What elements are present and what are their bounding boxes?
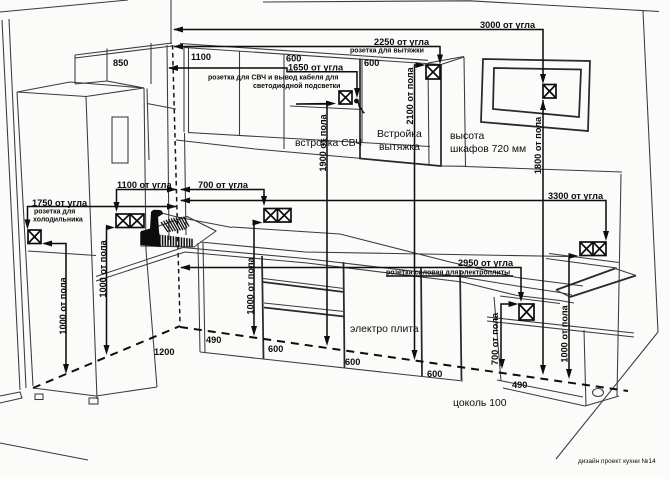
countertop: backsplash top line <box>232 227 583 286</box>
dim 1000 right-double down arrow <box>566 369 572 379</box>
svg-text:шкафов 720 мм: шкафов 720 мм <box>450 143 526 155</box>
svg-text:700 от угла: 700 от угла <box>198 180 249 190</box>
dim 1000 fridge-double line <box>107 228 113 353</box>
svg-text:490: 490 <box>206 335 221 345</box>
dim 2950 left arrow at corner <box>180 265 190 271</box>
svg-text:Встройка: Встройка <box>377 129 422 140</box>
svg-text:2100 от пола: 2100 от пола <box>405 66 415 124</box>
right wall counter back lines <box>546 259 617 269</box>
cabinet 850: left edge <box>74 55 76 84</box>
hood cabinet: front face outline <box>360 59 441 167</box>
fridge: front-left vertical edge <box>17 92 33 386</box>
fridge: door split line <box>28 251 96 256</box>
hood cabinet: side bottom edge <box>441 165 466 167</box>
window: outer frame <box>481 59 590 131</box>
base run: drawer line 1 thick <box>263 282 344 292</box>
dim 1000 corner-double line <box>254 223 260 334</box>
svg-text:розетка для СВЧ и вывод кабеля: розетка для СВЧ и вывод кабеля для <box>208 74 338 82</box>
dim 2100 right arrow into socket <box>416 62 426 68</box>
dim 2250 left arrow <box>173 44 183 50</box>
socket: microwave <box>339 91 352 104</box>
dim 2250 down arrow <box>437 55 443 65</box>
socket: stove power <box>519 304 534 320</box>
dim 1800 от пола line: up arrow under window socket <box>540 100 546 110</box>
dim 1000 corner-double right arrow <box>253 220 263 226</box>
svg-text:600: 600 <box>268 344 283 354</box>
dim 1000 fridge-double down arrow <box>104 345 110 355</box>
wall: right wall outer edge <box>643 11 658 332</box>
right cabinet: left front vertical <box>494 297 501 381</box>
base run: divider drawers right / stove left <box>344 262 345 368</box>
base run: bottom plinth line <box>200 352 463 381</box>
upper cabinets: divider 1100 door split <box>239 51 241 136</box>
fridge: front-right vertical edge <box>86 97 97 400</box>
svg-text:цоколь 100: цоколь 100 <box>453 398 507 409</box>
right cabinet: division line 2 <box>487 321 634 337</box>
dim 3000 down arrow at window socket <box>540 74 546 84</box>
base run: drawer line 1 thin <box>263 279 344 289</box>
svg-text:встройка СВЧ: встройка СВЧ <box>295 138 362 149</box>
dim 700 down arrow into socket <box>261 196 267 206</box>
dim 1900 от пола line <box>296 104 333 344</box>
upper cabinets: divider at microwave niche right <box>361 59 363 143</box>
dim 3000 line <box>174 30 543 82</box>
dim 700 от угла line <box>181 190 264 204</box>
dim 2950 от угла line <box>181 268 521 300</box>
wall: right wall floor edge <box>556 332 658 459</box>
dim 1800 down arrow at floor <box>540 365 546 375</box>
dim 2250 line <box>174 47 440 62</box>
svg-text:1000 от пола: 1000 от пола <box>98 239 108 297</box>
svg-text:1750 от угла: 1750 от угла <box>32 198 88 208</box>
right cabinet: adjustable foot <box>593 389 604 397</box>
cabinet 850: bottom edge right part <box>107 81 144 88</box>
svg-text:1800 от пола: 1800 от пола <box>533 116 543 174</box>
wall: back-right corner vertical <box>617 174 621 396</box>
fridge: foot 2 <box>89 398 98 404</box>
svg-text:светодиодной подсветки: светодиодной подсветки <box>253 82 340 90</box>
countertop: back edge along wall <box>200 242 568 257</box>
sink: faucet head <box>156 210 163 217</box>
fridge: side vent rectangle <box>112 117 128 163</box>
svg-text:3300 от угла: 3300 от угла <box>548 191 604 201</box>
dim 1000 fridge left arrow <box>42 241 52 247</box>
base run: corner cabinet left edge double <box>198 243 200 352</box>
dim 700 stove right arrow <box>509 301 519 307</box>
dim 700 stove down arrow <box>499 359 505 369</box>
dim 1100 down arrow into socket <box>114 202 120 212</box>
dim 3300 от угла line <box>181 201 606 239</box>
hood cabinet: side top edge <box>441 57 464 65</box>
base run: divider right end <box>460 270 462 380</box>
svg-text:высота: высота <box>450 131 484 142</box>
sink: back wall edge through corner <box>158 212 232 228</box>
base run: divider drawers left <box>262 256 264 359</box>
dim 1100 right arrow at corner <box>167 187 177 193</box>
svg-text:490: 490 <box>512 380 527 390</box>
right return: left end edge <box>556 290 570 297</box>
svg-text:1650 от угла: 1650 от угла <box>288 63 344 73</box>
dim 1900 down arrow at floor <box>324 336 330 346</box>
wall: back wall ceiling edge <box>263 1 659 12</box>
fridge: top face outline <box>17 82 144 97</box>
underline for розетка силовая <box>386 275 513 277</box>
dim 1750 right arrow at corner <box>167 204 177 210</box>
dim 1000 corner-double down arrow <box>251 326 257 336</box>
dim 1750 down arrow into socket <box>25 220 31 230</box>
fridge: side-right vertical edge <box>144 88 157 387</box>
cabinet 850: top back edge <box>75 43 172 55</box>
cabinet bottom reference line 720mm <box>176 140 362 159</box>
cabinet 850: door divider 2 <box>150 43 152 84</box>
right cabinet: bottom front edge <box>497 380 583 397</box>
right return: right end edge <box>615 269 636 276</box>
svg-text:1000 от пола: 1000 от пола <box>560 304 570 362</box>
svg-text:холодильника: холодильника <box>33 217 83 224</box>
wall panel vertical below upper cabinets <box>185 133 187 235</box>
dim 3300 left arrow at corner <box>180 198 190 204</box>
wall: left skirting <box>0 392 22 403</box>
base run: divider stove right <box>421 267 422 376</box>
svg-text:2250 от угла: 2250 от угла <box>374 37 430 47</box>
dim 3000 left arrow <box>173 27 183 33</box>
wall: line under window to right corner <box>465 167 622 173</box>
upper cabinets: top back edge <box>180 44 428 61</box>
countertop: front edge thickness companion right <box>500 296 560 304</box>
countertop: front edge top line <box>96 248 572 296</box>
svg-text:1100 от угла: 1100 от угла <box>117 180 172 190</box>
right cabinet: right side vertical <box>584 330 586 406</box>
wall: room corner hidden line (dashed) <box>173 45 181 322</box>
dim 1000 fridge socket line <box>44 244 66 372</box>
svg-text:розетка для вытяжки: розетка для вытяжки <box>350 48 424 55</box>
floor dashed line left branch <box>33 326 180 388</box>
dim 2950 down arrow into socket <box>518 292 524 302</box>
dim 700 stove line <box>501 304 515 366</box>
svg-text:3000 от угла: 3000 от угла <box>480 20 536 30</box>
base run: drawer line 2 thin <box>264 303 344 312</box>
wall: room corner vertical (solid upper part) <box>170 0 172 44</box>
cabinet 850: door divider 1 <box>106 49 108 82</box>
sink: basin outline <box>141 217 216 248</box>
fridge: foot 1 <box>35 394 43 400</box>
svg-text:1100: 1100 <box>191 52 211 62</box>
wall corner solid vertical left of dashed <box>167 45 169 240</box>
upper cabinets: left edge double line <box>183 46 185 132</box>
sink: faucet black silhouette <box>141 210 161 247</box>
wall: left wall outer edge line 2 <box>9 19 26 388</box>
wall: left wall outer edge line 1 <box>2 20 20 390</box>
upper cabinets: top front edge <box>184 48 441 65</box>
dim 1750 от угла line <box>28 207 177 227</box>
svg-text:1000 от пола: 1000 от пола <box>246 256 256 314</box>
wall: floor edge bottom left <box>0 443 88 460</box>
countertop: front edge bottom line <box>96 252 574 303</box>
hood cabinet: inner front-right corner line <box>428 64 429 166</box>
dim 3300 down arrow into socket <box>603 231 609 241</box>
socket: fridge single <box>28 230 41 244</box>
floor dashed line right branch <box>180 327 628 391</box>
dim 1650 down arrow <box>354 88 360 98</box>
cabinet 850: top front edge <box>75 46 172 58</box>
hood cabinet: side right edge <box>464 57 466 166</box>
wall ledge line right of fridge <box>147 104 176 110</box>
svg-text:розетка для: розетка для <box>34 209 75 216</box>
svg-text:700 от пола: 700 от пола <box>490 312 500 365</box>
upper cabinets: divider right of 1100 <box>283 54 285 149</box>
svg-text:600: 600 <box>427 369 442 379</box>
window: inner frame <box>493 68 581 117</box>
svg-text:электро плита: электро плита <box>350 324 419 335</box>
svg-text:2950 от угла: 2950 от угла <box>458 258 514 268</box>
dim 1000 fridge down arrow <box>63 364 69 374</box>
right cabinet: plinth side bottom edge <box>585 396 619 406</box>
socket: double on right wall <box>580 242 606 256</box>
svg-text:вытяжка: вытяжка <box>379 142 420 153</box>
svg-text:600: 600 <box>345 357 360 367</box>
dim 1650 line <box>169 68 357 95</box>
svg-text:600: 600 <box>364 58 379 68</box>
fridge: bottom side edge <box>96 387 157 396</box>
socket: double right of corner <box>264 209 291 223</box>
dim 1900 right arrow into socket <box>326 101 336 107</box>
socket: hood <box>426 65 440 79</box>
fridge: bottom front edge <box>33 388 96 396</box>
dim 1100 от угла line <box>117 190 177 209</box>
fridge: side-right upper double <box>147 89 149 161</box>
cabinet 850: bottom edge left part <box>75 81 107 84</box>
dim 1000 right-double right arrow <box>569 253 579 259</box>
cable outlet junction dot <box>354 99 359 104</box>
right return: front top edge rising <box>570 276 636 298</box>
dim 2100 от пола line <box>415 65 424 357</box>
dim 700 left arrow at corner <box>180 187 190 193</box>
socket: window wall <box>543 85 556 99</box>
svg-text:1000 от пола: 1000 от пола <box>58 276 68 334</box>
svg-text:дизайн проект кухни №14: дизайн проект кухни №14 <box>578 457 656 465</box>
wall: left wall ceiling edge <box>0 0 128 12</box>
dim 2100 down arrow at floor <box>412 350 418 360</box>
cable outlet squiggle <box>357 101 365 113</box>
socket: double near fridge <box>116 214 144 228</box>
dim 1000 right-double line <box>569 256 576 376</box>
upper cabinets: bottom edge <box>188 133 430 147</box>
sink: upper diagonal hatch wedge <box>161 217 189 232</box>
sink: hatch stripe band <box>141 232 192 247</box>
right return: top back edge rising <box>556 269 615 291</box>
dim 1800 line <box>542 100 544 372</box>
microwave niche shelf line <box>290 106 362 110</box>
right cabinet: division line 1 <box>487 317 634 333</box>
base run: drawer line 2 thick <box>264 308 344 317</box>
svg-text:850: 850 <box>113 58 128 68</box>
dim 1000 fridge-double right arrow <box>106 225 115 231</box>
svg-text:1200: 1200 <box>154 347 174 357</box>
hood cabinet: top back edge <box>428 57 464 64</box>
dim 1650 left arrow <box>168 65 178 71</box>
right cabinet: plinth bottom line <box>503 388 585 406</box>
